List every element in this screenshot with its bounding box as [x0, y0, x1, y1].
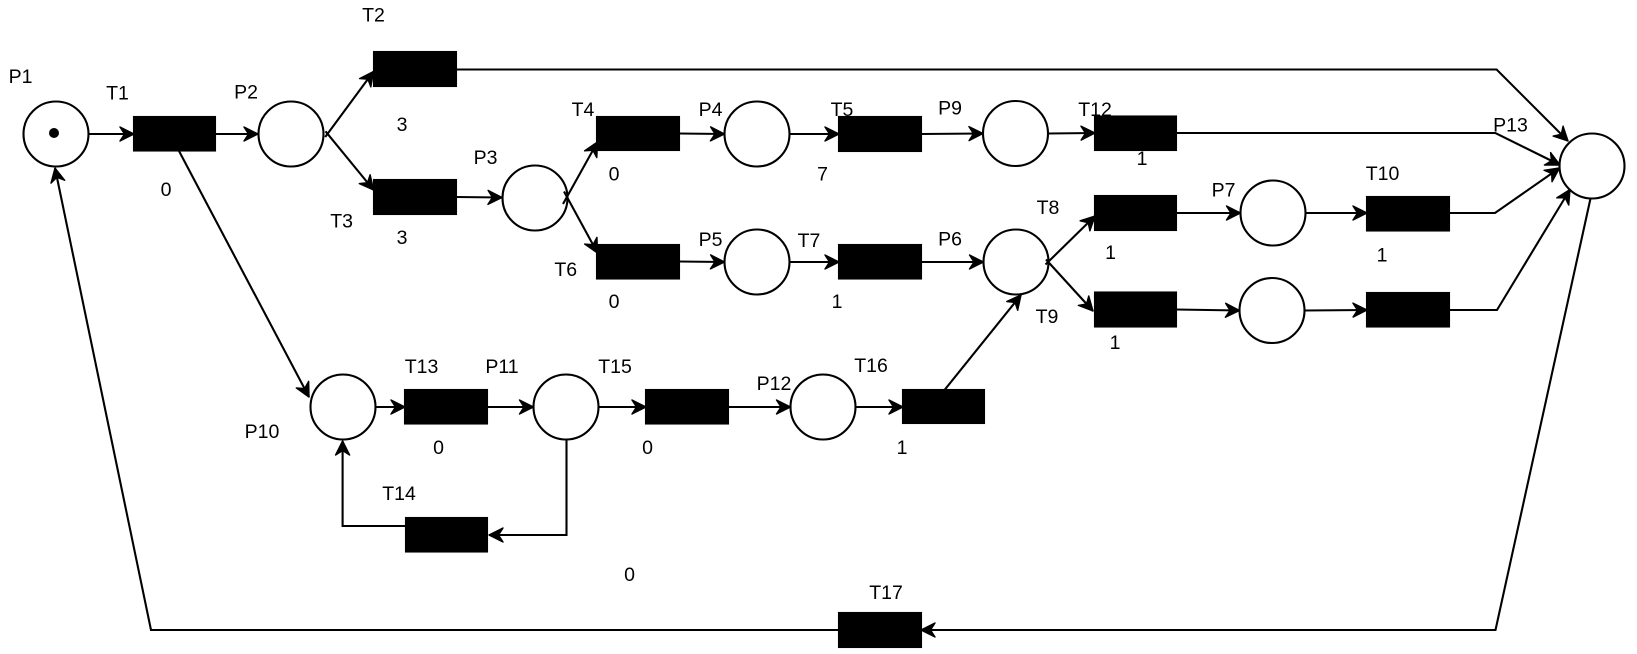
- wire T9 to P8: [1176, 310, 1240, 311]
- svg-text:T2: T2: [362, 5, 385, 27]
- svg-text:1: 1: [897, 437, 908, 459]
- place P10: [245, 375, 376, 444]
- svg-text:0: 0: [642, 437, 653, 459]
- wire T4 to P4: [679, 132, 725, 135]
- place P8 unnamed: [1240, 278, 1305, 343]
- svg-text:T12: T12: [1078, 99, 1112, 121]
- wire T2 to P13: [456, 70, 1568, 142]
- wire T15 to P12: [728, 406, 791, 408]
- svg-text:P6: P6: [938, 229, 962, 251]
- wire T16 to P6: [945, 295, 1022, 390]
- svg-text:P4: P4: [699, 99, 723, 121]
- wire P9 to T12: [1048, 132, 1095, 135]
- transition T9: [1036, 293, 1176, 355]
- wire T1 to P2: [215, 133, 258, 135]
- wire P5 to T7: [790, 261, 840, 263]
- transition T2: [362, 5, 456, 137]
- wire T8 to P7: [1176, 212, 1241, 214]
- wire P3 to T6: [564, 192, 598, 254]
- transition T3: [330, 180, 456, 249]
- svg-text:0: 0: [433, 437, 444, 459]
- wire P4 to T5: [790, 133, 840, 135]
- transition T16: [854, 355, 984, 459]
- wire P10 to T13: [376, 406, 406, 408]
- transition T1: [106, 83, 215, 202]
- wire P3 to T4: [563, 142, 598, 204]
- svg-text:T8: T8: [1037, 197, 1060, 219]
- wire T12 to P13: [1176, 133, 1560, 165]
- transition T8: [1037, 196, 1176, 264]
- wire T7 to P6: [921, 261, 984, 263]
- svg-text:P5: P5: [699, 229, 723, 251]
- transition T7: [798, 230, 921, 313]
- svg-text:1: 1: [1377, 245, 1388, 267]
- svg-text:T6: T6: [554, 259, 577, 281]
- transition T13: [405, 356, 487, 459]
- wire P6 to T8: [1046, 216, 1096, 265]
- place P7: [1212, 180, 1306, 246]
- svg-text:0: 0: [161, 179, 172, 201]
- svg-text:3: 3: [397, 227, 408, 249]
- svg-text:T4: T4: [572, 99, 595, 121]
- svg-text:P13: P13: [1493, 115, 1528, 137]
- svg-text:T1: T1: [106, 83, 129, 105]
- transition T12: [1078, 99, 1176, 170]
- transition T15: [598, 356, 728, 459]
- svg-text:T14: T14: [382, 483, 416, 505]
- transition T4: [572, 99, 679, 186]
- wire T10 to P13: [1449, 168, 1560, 213]
- wire P8 to T11: [1305, 309, 1368, 312]
- wire T17 to P1: [55, 168, 839, 630]
- svg-text:P10: P10: [245, 421, 280, 443]
- svg-text:T15: T15: [598, 356, 632, 378]
- place P4: [699, 99, 790, 167]
- svg-text:T10: T10: [1366, 163, 1400, 185]
- svg-text:T3: T3: [330, 211, 353, 233]
- wire P12 to T16: [856, 406, 904, 408]
- svg-text:P9: P9: [938, 98, 962, 120]
- wire T11 to P13: [1449, 190, 1570, 311]
- wire P13 to T17: [921, 199, 1591, 631]
- wire P1 to T1: [89, 133, 134, 135]
- svg-text:P7: P7: [1212, 180, 1236, 202]
- transition T14: [382, 483, 635, 586]
- wire T5 to P9: [921, 132, 983, 135]
- transition T5: [817, 99, 921, 186]
- svg-text:3: 3: [397, 114, 408, 136]
- svg-text:1: 1: [1137, 148, 1148, 170]
- svg-text:1: 1: [1110, 332, 1121, 354]
- wire P2 to T3: [326, 131, 374, 190]
- place P6: [938, 229, 1048, 295]
- place P13: [1493, 115, 1624, 199]
- svg-text:1: 1: [1105, 242, 1116, 264]
- transition T10: [1366, 163, 1449, 267]
- wire P7 to T10: [1306, 212, 1368, 214]
- wire T3 to P3: [456, 196, 502, 199]
- svg-text:0: 0: [624, 564, 635, 586]
- svg-text:P12: P12: [757, 373, 792, 395]
- transition T6: [554, 245, 679, 313]
- place P12: [757, 373, 856, 440]
- place P2: [234, 82, 323, 167]
- svg-text:0: 0: [609, 291, 620, 313]
- svg-text:1: 1: [832, 291, 843, 313]
- svg-text:T17: T17: [869, 582, 903, 604]
- wire T13 to P11: [487, 406, 534, 408]
- transition T17: [839, 582, 921, 647]
- svg-text:7: 7: [817, 164, 828, 186]
- wire T6 to P5: [679, 260, 725, 263]
- wire P11 to T14: [489, 440, 567, 536]
- svg-text:0: 0: [609, 164, 620, 186]
- place P11: [485, 356, 598, 440]
- svg-text:P2: P2: [234, 82, 258, 104]
- svg-text:T16: T16: [854, 355, 888, 377]
- svg-text:T9: T9: [1036, 306, 1059, 328]
- place P9: [938, 98, 1048, 167]
- svg-text:P1: P1: [9, 66, 33, 88]
- svg-text:T7: T7: [798, 230, 821, 252]
- svg-text:P11: P11: [485, 356, 518, 378]
- transition T11 unnamed: [1367, 293, 1449, 327]
- svg-text:T13: T13: [405, 356, 439, 378]
- place P5: [699, 229, 790, 295]
- wire T14 to P10: [343, 441, 406, 526]
- svg-text:P3: P3: [474, 147, 498, 169]
- wire P6 to T9: [1046, 260, 1093, 312]
- svg-text:T5: T5: [831, 99, 854, 121]
- wire P11 to T15: [599, 406, 647, 408]
- wire T1 to P10: [179, 151, 309, 397]
- place P3: [474, 147, 568, 231]
- wire P2 to T2: [325, 72, 373, 138]
- place P1: [9, 66, 89, 167]
